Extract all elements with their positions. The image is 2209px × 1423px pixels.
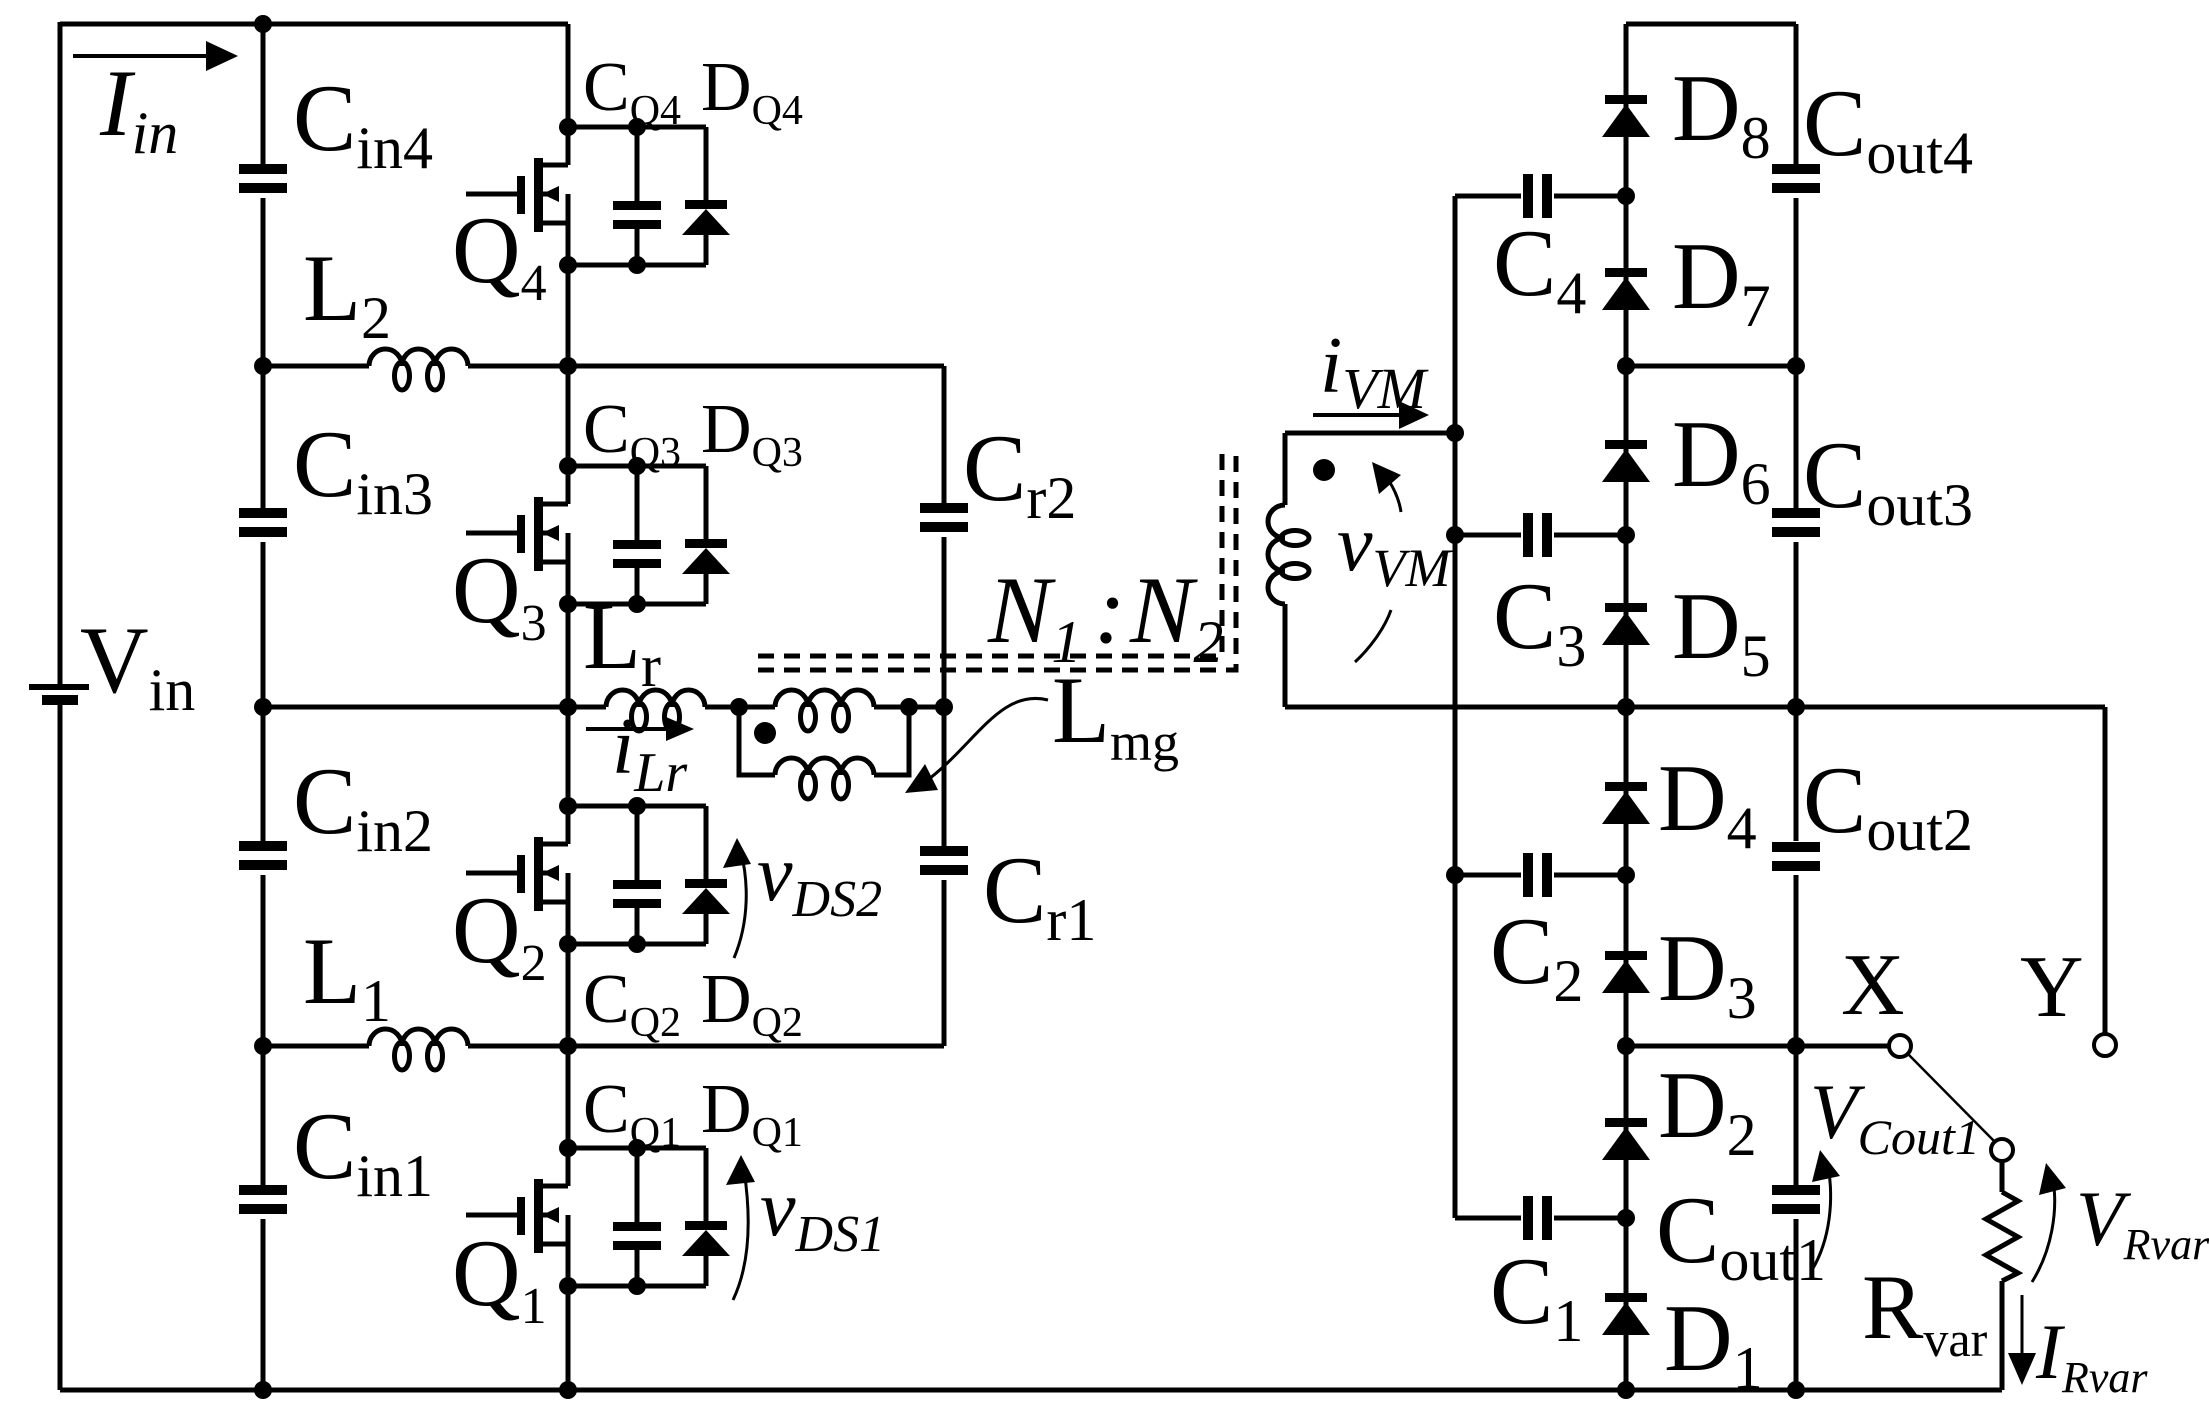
pointer vVM arrow upper <box>1372 462 1401 512</box>
wire Cr column upper <box>942 366 947 503</box>
capacitor Cout1 <box>1772 1185 1820 1214</box>
diode D8 <box>1602 95 1650 137</box>
resistor Rvar <box>1986 1192 2018 1281</box>
polarity dot secondary <box>1313 459 1335 481</box>
wire Lr to Lmg <box>705 705 775 710</box>
arrow iLr <box>586 717 694 741</box>
wire C3 row right <box>1554 533 1626 538</box>
wire Lmg top right <box>874 705 944 710</box>
inductor L1 <box>369 1029 468 1070</box>
node row707 diode <box>1617 698 1635 716</box>
transistor Q4 <box>466 127 568 265</box>
transistor Q2 <box>466 806 568 944</box>
capacitor C3 <box>1523 513 1552 557</box>
svg-text::: : <box>1094 557 1126 663</box>
node row366 cout <box>1787 357 1805 375</box>
wire L2 row left <box>263 364 369 369</box>
node C3-diode <box>1617 526 1635 544</box>
capacitor Cout3 <box>1772 508 1820 537</box>
terminal Y <box>2094 1034 2116 1056</box>
diode D1 <box>1602 1293 1650 1335</box>
pointer vDS2 arrow <box>723 838 751 958</box>
wire Lmg branch right rise <box>874 707 909 775</box>
inductor N2 secondary winding <box>1268 505 1309 604</box>
terminal X <box>1889 1035 1911 1057</box>
wire C1 row <box>1455 1216 1521 1221</box>
transistor Q3 <box>466 466 568 604</box>
node C1-diode <box>1617 1209 1635 1227</box>
capacitor Cin2 <box>239 841 287 870</box>
node L2-switch <box>559 357 577 375</box>
node row366 diode <box>1617 357 1635 375</box>
wire Q2 cell rails <box>559 797 706 953</box>
terminal wiper <box>1991 1139 2013 1161</box>
node secondary top <box>1446 424 1464 442</box>
capacitor Cin4 <box>239 164 287 193</box>
node row1046 cout <box>1787 1037 1805 1055</box>
inductor Lmg bottom winding <box>775 758 874 799</box>
diode D7 <box>1602 268 1650 310</box>
capacitor C1 <box>1523 1196 1552 1240</box>
wire junction row 1046 <box>1626 1044 1888 1049</box>
node Lmg left <box>730 698 748 716</box>
wire left vertical upper <box>58 22 63 687</box>
node L2-Cin <box>254 357 272 375</box>
transformer secondary top rail <box>1285 431 1455 436</box>
capacitor C4 <box>1523 174 1552 218</box>
switch wiper X to Rvar <box>1908 1054 1995 1142</box>
node row707 cout <box>1787 698 1805 716</box>
wire Lmg branch left drop <box>739 707 775 775</box>
diode DQ2 <box>682 806 730 944</box>
wire C3 row <box>1455 533 1521 538</box>
inductor N1 top winding <box>775 690 874 731</box>
pointer vVM arrow lower <box>1355 610 1391 662</box>
pointer Lmg arrow <box>905 698 1048 793</box>
wire C2 row <box>1455 873 1521 878</box>
diode D4 <box>1602 782 1650 824</box>
wire L1 row left <box>263 1044 369 1049</box>
wire Cr column middle <box>942 537 947 846</box>
diode DQ1 <box>682 1148 730 1286</box>
polarity dot primary <box>754 722 776 744</box>
node top rail <box>254 15 272 33</box>
transformer secondary left upper <box>1283 433 1288 505</box>
wire switch column segments <box>566 24 571 1390</box>
pointer VCout1 arrow <box>1812 1150 1840 1270</box>
wire L2 row right <box>468 364 944 369</box>
wire bottom rail <box>60 1388 2002 1393</box>
node C4-diode <box>1617 187 1635 205</box>
node mid-switch <box>559 698 577 716</box>
node C2-diode <box>1617 866 1635 884</box>
svg-text:Y: Y <box>2020 939 2084 1036</box>
arrow iVM <box>1313 401 1429 429</box>
svg-text:X: X <box>1841 937 1905 1034</box>
wire Q1 cell rails <box>559 1139 706 1295</box>
node row1046 diode <box>1617 1037 1635 1055</box>
node L1-switch <box>559 1037 577 1055</box>
node Lmg right <box>900 698 918 716</box>
node bottom diode <box>1617 1381 1635 1399</box>
arrow Iin <box>73 41 238 71</box>
wire Q3 cell rails <box>559 457 706 613</box>
capacitor Cin3 <box>239 508 287 537</box>
transformer secondary left lower <box>1283 604 1288 707</box>
capacitor Cout2 <box>1772 842 1820 871</box>
capacitor Cin1 <box>239 1185 287 1214</box>
arrow IRvar <box>2008 1295 2036 1385</box>
diode D3 <box>1602 951 1650 993</box>
wire secondary bottom rail <box>1285 705 2105 710</box>
wire C1 row right <box>1554 1216 1626 1221</box>
node bottom-switch <box>559 1381 577 1399</box>
pointer VRvar arrow <box>2032 1163 2066 1282</box>
wire left vertical lower <box>58 705 63 1390</box>
capacitor Cout4 <box>1772 164 1820 193</box>
wire Rvar top lead <box>2000 1161 2005 1192</box>
diode D5 <box>1602 603 1650 645</box>
wire L1 row right <box>468 1044 944 1049</box>
capacitor C2 <box>1523 853 1552 897</box>
wire VM top rail <box>1626 22 1796 27</box>
capacitor CQ4 <box>613 127 661 265</box>
wire column A <box>1453 196 1458 1218</box>
pointer vDS1 arrow <box>726 1155 755 1300</box>
diode DQ3 <box>682 466 730 604</box>
capacitor CQ3 <box>613 466 661 604</box>
wire C2 row right <box>1554 873 1626 878</box>
wire top rail <box>60 22 568 27</box>
wire mid rail left <box>263 705 606 710</box>
diode D2 <box>1602 1118 1650 1160</box>
node L1-Cin <box>254 1037 272 1055</box>
wire diode column <box>1624 24 1629 1390</box>
capacitor Cr1 <box>920 846 968 875</box>
wire Rvar bottom lead <box>2000 1281 2005 1390</box>
inductor L2 <box>369 349 468 390</box>
battery Vin symbol <box>29 684 89 705</box>
diode D6 <box>1602 440 1650 482</box>
node A-C2 <box>1446 866 1464 884</box>
wire Cin column <box>261 24 266 1390</box>
node mid-Cin <box>254 698 272 716</box>
node bottom-Cin <box>254 1381 272 1399</box>
core dashed lines <box>758 452 1236 670</box>
wire Y branch <box>2103 707 2108 1033</box>
wire C4 row right <box>1554 194 1626 199</box>
capacitor CQ1 <box>613 1148 661 1286</box>
capacitor Cr2 <box>920 503 968 532</box>
node A-C3 <box>1446 526 1464 544</box>
transistor Q1 <box>466 1148 568 1286</box>
wire junction row 366 <box>1626 364 1796 369</box>
node bottom cout <box>1787 1381 1805 1399</box>
capacitor CQ2 <box>613 806 661 944</box>
inductor Lr <box>606 690 705 731</box>
node Cr mid <box>935 698 953 716</box>
wire Q4 cell rails <box>559 118 706 274</box>
wire C4 row <box>1455 194 1521 199</box>
diode DQ4 <box>682 127 730 265</box>
wire Cout column <box>1794 24 1799 1390</box>
wire Cr column lower <box>942 880 947 1046</box>
